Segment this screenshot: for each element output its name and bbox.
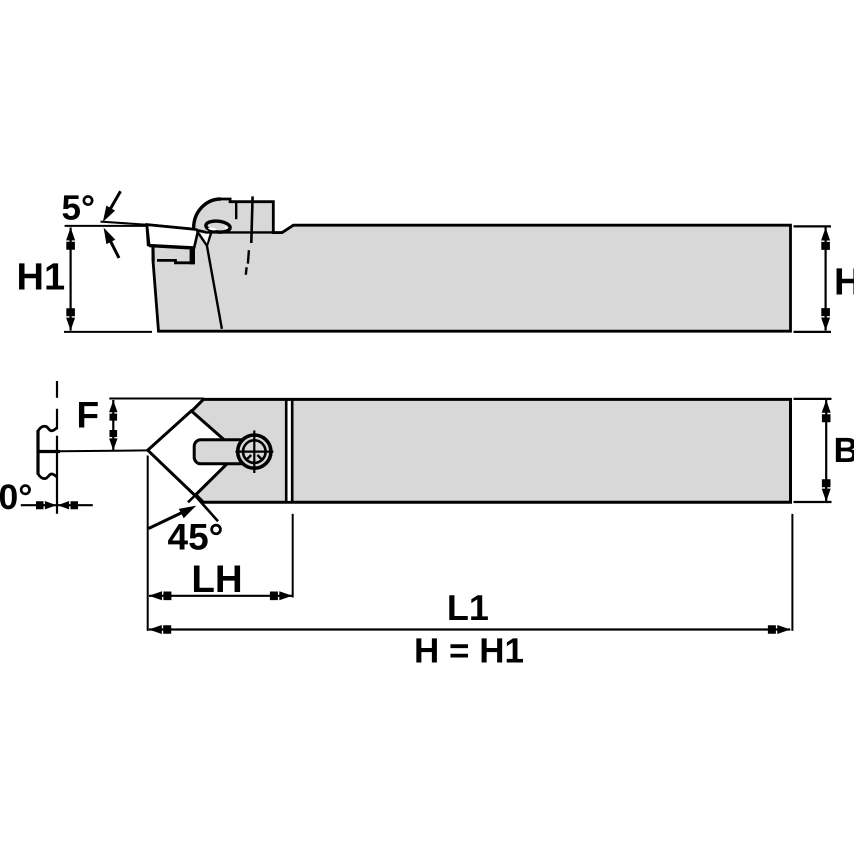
shim seat top edge (thick) xyxy=(149,246,189,248)
B dimension line xyxy=(825,400,827,502)
workpiece symbol left edge xyxy=(36,430,39,474)
screw slot tick lower-left xyxy=(246,455,252,461)
workpiece centerline segment 3 xyxy=(56,436,58,514)
H dimension line xyxy=(824,228,826,331)
0-degree dimension line xyxy=(21,504,93,506)
workpiece centerline segment 1 xyxy=(56,381,58,398)
clamp nose oval xyxy=(205,220,230,233)
5-degree upper arrow xyxy=(106,191,121,217)
insert pocket slant line (side view) xyxy=(207,246,222,329)
head-shank joint line 2 xyxy=(291,399,294,502)
L1 arrow left xyxy=(149,625,171,634)
clamp screw axis hidden dash 2 xyxy=(245,267,248,275)
insert (white wedge, side view) xyxy=(147,225,198,248)
pocket V-notch left line xyxy=(198,232,207,246)
H1 bottom extension line xyxy=(64,331,152,333)
clamp screw head inner circle xyxy=(243,440,266,463)
45-degree leader arrow xyxy=(149,512,185,529)
top view: tool holder body (side elevation) xyxy=(147,199,791,331)
shim seat stepped bottom edge xyxy=(157,260,195,262)
screw crosshair horizontal xyxy=(236,451,274,453)
clamp screw head outer ring xyxy=(238,435,271,468)
B top tick xyxy=(794,398,832,400)
clamp screw axis (solid upper part) xyxy=(251,196,252,243)
H bottom tick xyxy=(794,331,832,333)
0-degree arrow pointing left xyxy=(58,501,78,509)
B bottom tick xyxy=(794,501,832,503)
LH arrow right xyxy=(270,591,292,600)
svg-text:LH: LH xyxy=(191,558,242,601)
workpiece centerline segment 2 xyxy=(56,409,58,430)
head-shank joint white gap xyxy=(288,401,291,501)
shim seat right edge (thick) xyxy=(190,248,195,264)
LH dimension line xyxy=(149,595,292,597)
L1 arrow right xyxy=(768,625,790,634)
L1 dimension line xyxy=(149,628,791,630)
shim seat left edge xyxy=(152,246,155,261)
pocket V-notch right line xyxy=(207,232,212,245)
screw slot tick lower-right xyxy=(257,455,263,461)
B arrow up xyxy=(822,400,831,422)
5-degree sloped extension line xyxy=(101,222,147,225)
svg-text:5°: 5° xyxy=(62,189,95,228)
svg-text:45°: 45° xyxy=(168,516,224,557)
clamp hump front arc (overlay, thicker) xyxy=(194,199,221,228)
svg-text:F: F xyxy=(77,395,100,436)
clamp inner vertical line xyxy=(235,202,237,219)
H1 arrow up xyxy=(66,227,75,249)
diamond corner extension line (down-right) xyxy=(195,496,218,522)
svg-text:B: B xyxy=(834,431,854,470)
L1 right extension line xyxy=(791,514,793,631)
5-degree lower arrow xyxy=(106,233,119,258)
head top surface line under clamp xyxy=(205,231,282,233)
diamond corner extension line (down-left stub) xyxy=(188,496,195,503)
H1 dimension line xyxy=(69,228,71,331)
svg-text:H1: H1 xyxy=(17,257,66,299)
clamp screw axis hidden dash 1 xyxy=(248,250,249,263)
LH arrow left xyxy=(149,591,171,600)
insert edge to surface connector under nose xyxy=(194,230,206,233)
head-shank joint line 1 xyxy=(285,399,288,502)
insert (diamond, plan view) xyxy=(148,411,239,496)
H1 arrow down xyxy=(66,308,75,330)
F arrow up xyxy=(109,400,117,420)
svg-text:H: H xyxy=(834,262,854,304)
plan view: tool holder bar xyxy=(152,399,790,502)
H top tick xyxy=(794,225,832,227)
workpiece break line top xyxy=(38,426,57,431)
F arrow down xyxy=(109,430,117,450)
workpiece break line bottom xyxy=(38,474,57,479)
feed reference line (thick part) xyxy=(37,450,60,453)
5-degree reference line (horizontal) xyxy=(65,225,148,227)
F top extension line xyxy=(109,398,204,400)
screw crosshair vertical xyxy=(253,431,255,474)
svg-text:L1: L1 xyxy=(447,587,489,628)
L1 left extension line xyxy=(147,456,149,631)
clamp arm (plan view) xyxy=(194,440,257,464)
LH right extension line xyxy=(292,514,294,598)
svg-text:H = H1: H = H1 xyxy=(414,632,524,671)
H arrow up xyxy=(821,228,830,250)
B arrow down xyxy=(822,479,831,501)
H arrow down xyxy=(821,308,830,330)
feed reference line to tool tip xyxy=(60,449,148,452)
F dimension line xyxy=(112,400,114,451)
pocket V-notch white gap xyxy=(201,234,210,244)
0-degree arrow pointing right xyxy=(36,501,56,509)
svg-text:0°: 0° xyxy=(0,477,32,517)
